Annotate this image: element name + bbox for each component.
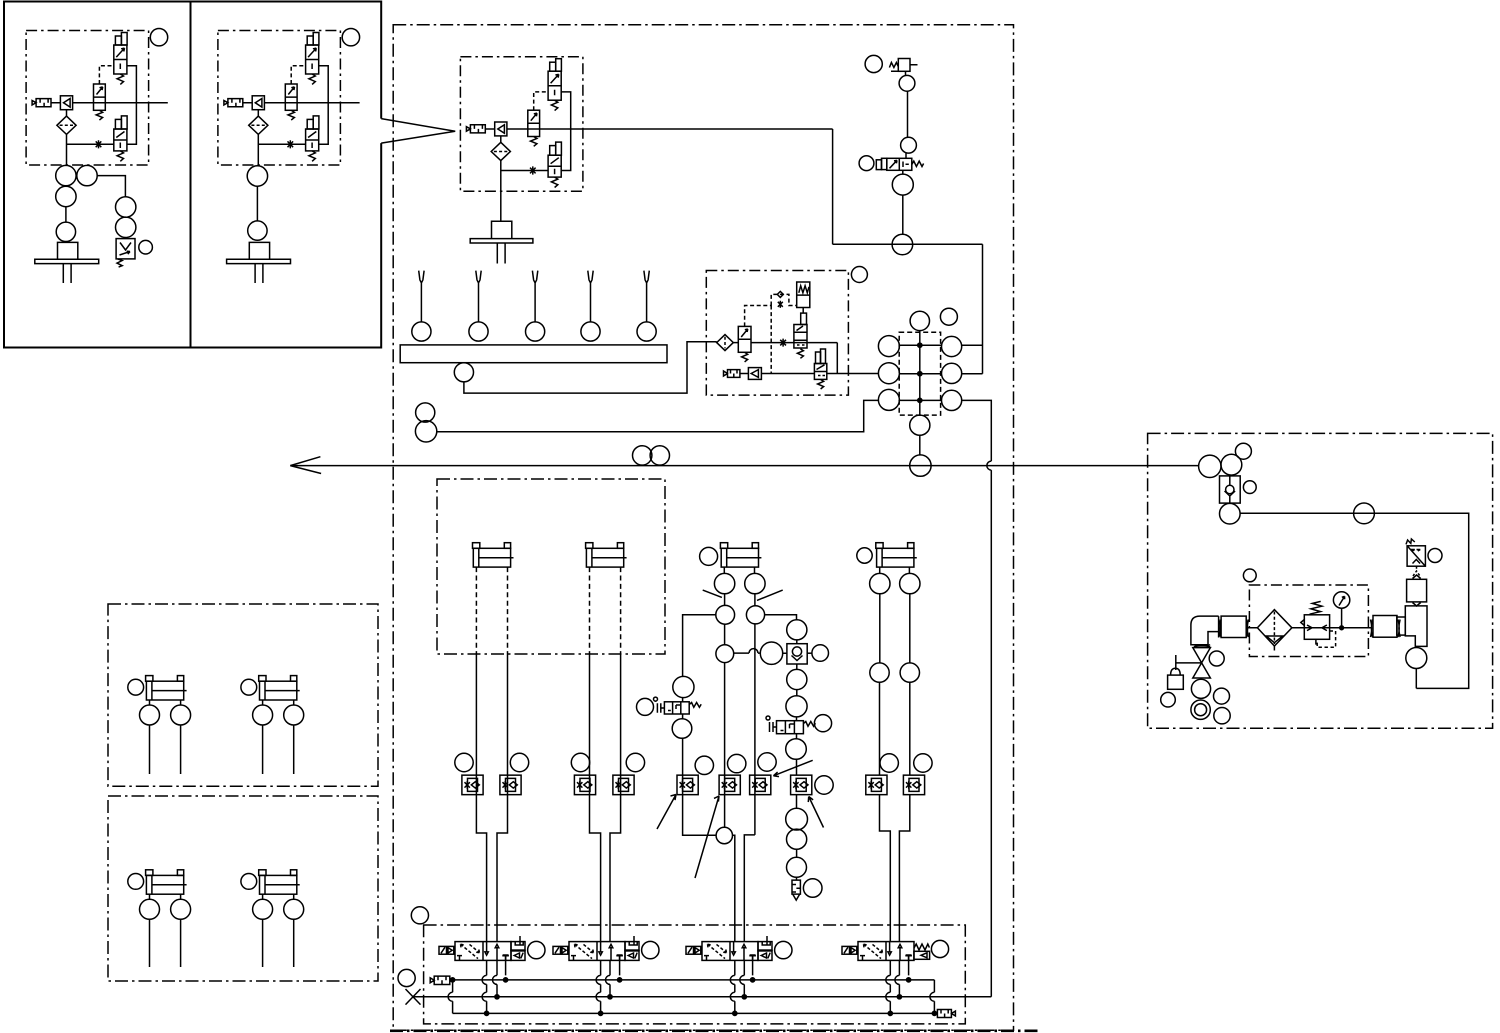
node DV1-P bbox=[495, 995, 499, 999]
wire row2 right bbox=[962, 373, 983, 375]
node row1 bbox=[918, 343, 922, 347]
manifold row 1 bbox=[899, 344, 941, 346]
wire DV4-P bbox=[898, 960, 900, 997]
pilot restrictor mark bbox=[778, 301, 783, 308]
tee block T1 bbox=[1405, 606, 1427, 647]
flow control FC5 bbox=[677, 775, 698, 795]
wires L2a bbox=[150, 894, 181, 967]
cylinder CA bbox=[473, 543, 514, 567]
supply source mark X bbox=[406, 989, 421, 1005]
node DV3-R bbox=[751, 978, 755, 982]
hop DV3-E1 bbox=[730, 975, 734, 984]
label circle L1a bbox=[128, 679, 144, 695]
node DV1-R bbox=[504, 978, 508, 982]
SH handle bbox=[1176, 655, 1202, 670]
nozzle circle N3 bbox=[526, 322, 545, 341]
label circle L1b bbox=[241, 679, 257, 695]
dryer D1 bbox=[1407, 579, 1427, 602]
port circle Q5 bbox=[786, 739, 807, 760]
port circle AS4 bbox=[1220, 503, 1241, 524]
wire main to exhaust row bbox=[836, 343, 838, 374]
label circle C3 bbox=[700, 547, 718, 565]
wire manifold down bbox=[919, 435, 921, 455]
joint mark F-CB2 bbox=[1371, 620, 1373, 638]
bottom frame line bbox=[390, 1030, 1040, 1033]
wire bus1 to bus3 left bbox=[452, 980, 454, 1014]
port circle M1L bbox=[878, 336, 899, 357]
wires L1a bbox=[150, 700, 181, 774]
wire DV1-R bbox=[503, 955, 509, 975]
wire C4 ports bbox=[880, 567, 910, 573]
hop DV1-P bbox=[493, 975, 498, 984]
valve manifold boundary bbox=[424, 925, 966, 1024]
wire DV1-E bbox=[486, 960, 488, 1013]
label circle AS3 bbox=[1235, 443, 1251, 459]
wire CA-A bbox=[476, 654, 486, 942]
release valve spring U4b bbox=[818, 379, 824, 389]
label circle regulator R1 bbox=[865, 55, 882, 72]
label circle DV3 bbox=[775, 941, 792, 958]
wire QE down bbox=[796, 664, 798, 696]
manifold block bbox=[899, 332, 940, 415]
connector block CB2 bbox=[1373, 616, 1397, 638]
spring DV4 bbox=[914, 944, 929, 950]
port circle L1b-B bbox=[284, 705, 304, 725]
node bus1 left bbox=[451, 978, 455, 982]
elbow fitting EF bbox=[1191, 616, 1219, 645]
wire DV2-E bbox=[600, 960, 602, 1013]
label circle FC10 bbox=[914, 754, 932, 772]
SV1 spring bbox=[912, 161, 924, 166]
label circle X bbox=[398, 969, 415, 986]
hop DV1-E2 bbox=[482, 992, 486, 1001]
wire CA-A dashed bbox=[475, 567, 477, 654]
port circle HV1b bbox=[672, 719, 692, 739]
node DV2-E bbox=[599, 1011, 603, 1015]
port circle V1c bbox=[56, 186, 76, 206]
wire to pad fitting 1 bbox=[65, 165, 68, 222]
port circle V2d bbox=[248, 221, 267, 240]
label circle FC6 bbox=[728, 754, 746, 772]
label circle FC1 bbox=[455, 753, 473, 771]
wire to pad fitting 2 bbox=[256, 165, 259, 221]
port circle P2 bbox=[901, 137, 917, 153]
joint mark CB2-T bbox=[1398, 620, 1400, 638]
label circle unit 2 bbox=[342, 29, 359, 46]
hop bus1L bbox=[448, 992, 453, 1001]
port circle P1 bbox=[899, 75, 915, 91]
vacuum switch valve U4v bbox=[801, 313, 807, 324]
wire CB-B dashed bbox=[620, 567, 622, 654]
wire CB-A dashed bbox=[589, 567, 591, 654]
label circle DV2 bbox=[642, 941, 659, 958]
port circle L2b-A bbox=[253, 899, 273, 919]
wires L2b bbox=[263, 894, 294, 967]
label circle M0b bbox=[940, 308, 957, 325]
node DV2-P bbox=[608, 995, 612, 999]
vacuum pad 1 bbox=[35, 242, 99, 283]
port circle C3B2 bbox=[746, 606, 764, 624]
header arrow bbox=[290, 457, 321, 474]
wire R1 down bbox=[905, 71, 907, 75]
wire CB-A bbox=[590, 654, 601, 942]
RG1 spring bbox=[1310, 601, 1322, 614]
port circle C4B2 bbox=[900, 663, 919, 682]
solenoid valve DV1 bbox=[439, 942, 511, 961]
pilot line dashed U4 bbox=[745, 294, 797, 373]
solenoid valve DV4 bbox=[842, 942, 914, 961]
cylinder C3 bbox=[720, 543, 761, 567]
option station boundary L1 bbox=[108, 604, 378, 786]
port circle Q7 bbox=[787, 829, 807, 849]
output stub unit2 bbox=[340, 102, 359, 104]
port circle L1b-A bbox=[253, 705, 273, 725]
silencer bus3 bbox=[937, 1010, 955, 1018]
switch mark C3R bbox=[757, 590, 783, 600]
left station box 1 bbox=[4, 2, 191, 348]
port circle C4A bbox=[870, 573, 890, 593]
shutoff solenoid valve SV1 bbox=[876, 160, 881, 170]
label circle RV bbox=[1428, 549, 1442, 563]
vacuum pad 3 bbox=[470, 221, 533, 263]
port circle AS5 bbox=[1354, 503, 1375, 524]
label circle HV2 bbox=[814, 715, 831, 732]
restrictor mark U4 bbox=[780, 339, 786, 347]
supply branch line bbox=[1240, 513, 1469, 688]
port circle P3 bbox=[892, 174, 913, 195]
pointer arrow A1 bbox=[657, 795, 676, 830]
wire down to PV line bbox=[832, 129, 834, 244]
regulator RG1 bbox=[1304, 615, 1329, 640]
wire Q7-Q8 bbox=[796, 849, 798, 880]
port circle L2a-B bbox=[171, 899, 191, 919]
port circle M5 bbox=[910, 455, 931, 476]
wire C4B mid bbox=[909, 594, 911, 663]
check valve CV1 bbox=[1220, 476, 1241, 503]
silencer U4m bbox=[724, 370, 740, 378]
hop bus1R bbox=[930, 992, 935, 1001]
wires L1b bbox=[263, 700, 294, 774]
wire DV3-R bbox=[750, 955, 756, 975]
label circle W1 bbox=[416, 403, 435, 422]
wire C3B down bbox=[744, 624, 755, 941]
pointer arrow A4 bbox=[808, 797, 823, 828]
wire DV4-E bbox=[889, 960, 891, 1013]
port circle C4B bbox=[900, 573, 920, 593]
cylinder CB bbox=[586, 543, 627, 567]
label circle C4 bbox=[857, 548, 872, 563]
port circle HV1a bbox=[673, 676, 694, 697]
left station box 2 bbox=[191, 2, 382, 348]
port circle M2L bbox=[878, 363, 899, 384]
wire C4A mid bbox=[879, 594, 881, 663]
pilot stack DV3 bbox=[758, 936, 772, 960]
node DV3-P bbox=[742, 995, 746, 999]
vacuum pad 2 bbox=[227, 242, 291, 283]
shutoff valve SH bbox=[1193, 648, 1211, 678]
port circle L1a-B bbox=[171, 705, 191, 725]
wire C3A link bbox=[724, 594, 726, 645]
supply bus2 bbox=[413, 996, 991, 998]
pressure regulator U4r bbox=[797, 282, 810, 308]
RV spring bbox=[1406, 539, 1415, 544]
label circle SH3 bbox=[1214, 688, 1230, 704]
wire DV2-R bbox=[617, 955, 623, 975]
supply valve U4 bbox=[738, 326, 751, 352]
port circle SH2 inner bbox=[1195, 704, 1207, 716]
flow control FC7 bbox=[750, 775, 771, 795]
nozzle circle N1 bbox=[412, 322, 431, 341]
wire C3 ports bbox=[724, 567, 754, 573]
port circle M4 bbox=[910, 415, 930, 435]
callout pointer to ejector detail bbox=[381, 119, 455, 144]
HV1 spring bbox=[689, 703, 701, 708]
junction circle J3 bbox=[716, 645, 734, 663]
flow control FC3 bbox=[574, 775, 595, 795]
port circle Q2 bbox=[787, 620, 807, 640]
RG1 feedback dashed bbox=[1317, 631, 1335, 647]
port circle V2a bbox=[247, 166, 267, 186]
solenoid valve DV2 bbox=[553, 942, 625, 961]
suction filter F4 bbox=[717, 335, 734, 351]
blowoff nozzle N3 bbox=[532, 271, 537, 322]
release valve U4b bbox=[816, 352, 821, 364]
wire J3 to QEV bbox=[734, 652, 761, 654]
wire J4 to valve3 bbox=[733, 835, 735, 941]
wire J3 down bbox=[724, 663, 726, 828]
label circle FRL bbox=[1243, 569, 1256, 582]
pressure gauge G1 bbox=[1333, 592, 1349, 608]
silencer QM bbox=[792, 880, 800, 900]
node DV3-E bbox=[733, 1011, 737, 1015]
wire row1 right bbox=[962, 344, 983, 346]
hop arc row3 wire bbox=[987, 461, 991, 470]
cylinder option boundary bbox=[437, 479, 665, 654]
padlock bbox=[1168, 675, 1184, 689]
node DV1-E bbox=[485, 1011, 489, 1015]
port circle M3R bbox=[942, 390, 962, 410]
port circle W2 bbox=[415, 421, 436, 442]
manifold row 2 bbox=[899, 373, 941, 375]
port circle C4A2 bbox=[870, 663, 889, 682]
cylinder L2b bbox=[259, 870, 300, 894]
label circle FC8 bbox=[815, 776, 833, 794]
hop DV3-E2 bbox=[730, 992, 734, 1001]
wire F4 to valve bbox=[733, 342, 738, 344]
vacuum line to manifold bbox=[827, 373, 879, 375]
ejector unit 4 boundary bbox=[706, 271, 848, 396]
nozzle circle N5 bbox=[637, 322, 656, 341]
flow control FC10 bbox=[903, 775, 924, 795]
pilot stack DV2 bbox=[625, 936, 639, 960]
port circle M2R bbox=[942, 363, 962, 383]
label circle FC7 bbox=[758, 753, 776, 771]
node row2 bbox=[918, 372, 922, 376]
ejector unit 1 bbox=[26, 31, 149, 166]
main supply header bbox=[290, 465, 1198, 467]
connector block CB1 bbox=[1221, 616, 1246, 637]
exhaust line ejector4 bbox=[761, 373, 814, 375]
port circle C3A bbox=[714, 573, 734, 593]
wire CA-B dashed bbox=[507, 567, 509, 654]
hop DV3-P bbox=[740, 975, 745, 984]
wire DV2-P bbox=[609, 960, 611, 997]
wire HV2 down bbox=[796, 734, 798, 809]
blowoff nozzle N4 bbox=[588, 271, 593, 322]
port circle Q1 bbox=[760, 642, 782, 664]
wire C4B down bbox=[899, 682, 909, 941]
port circle P4 bbox=[892, 234, 913, 255]
label circle CV1 bbox=[1243, 481, 1256, 494]
wire P2-valve bbox=[905, 153, 907, 158]
flow control FC8 bbox=[791, 775, 812, 795]
supply valve spring U4 bbox=[742, 352, 748, 362]
main system boundary bbox=[393, 25, 1013, 1030]
port circle L2a-A bbox=[140, 899, 160, 919]
manifold gallery bbox=[919, 330, 921, 415]
port circle AS1 bbox=[1199, 455, 1221, 477]
option station boundary L2 bbox=[108, 796, 378, 981]
hop DV4-E1 bbox=[886, 975, 891, 984]
pressure switch spring bbox=[117, 259, 122, 267]
node bus3 right bbox=[932, 1011, 936, 1015]
filter FL1 bbox=[1257, 610, 1292, 646]
PV supply line bbox=[833, 243, 983, 245]
port circle Q3 bbox=[787, 669, 807, 689]
hop DV2-P bbox=[606, 975, 611, 984]
port circle H1 bbox=[633, 446, 652, 465]
wire C3B2 to QEV top bbox=[765, 615, 797, 620]
flow control FC1 bbox=[462, 775, 483, 795]
wire T2 down bbox=[1415, 646, 1417, 688]
nozzle circle N2 bbox=[469, 322, 488, 341]
port circle M3L bbox=[878, 389, 899, 410]
port circle bar bbox=[454, 363, 473, 382]
port circle C3B bbox=[745, 573, 765, 593]
port circle Q4 bbox=[786, 696, 807, 717]
wire SV1 to P3 bbox=[902, 170, 904, 234]
label circle SH bbox=[1209, 651, 1224, 666]
wire DV4-R bbox=[906, 955, 912, 975]
pilot stack DV1 bbox=[511, 936, 525, 960]
port circle L2b-B bbox=[284, 899, 304, 919]
port circle L1a-A bbox=[140, 705, 160, 725]
port circle S1b bbox=[116, 217, 136, 237]
label circle FC3 bbox=[571, 753, 589, 771]
label circle L2b bbox=[241, 874, 257, 890]
junction circle J4 bbox=[716, 827, 732, 843]
wire regulator to valve bbox=[802, 308, 804, 314]
wire down to manifold bbox=[982, 244, 984, 373]
joint mark EF-C bbox=[1219, 620, 1221, 638]
silencer bus1 bbox=[430, 976, 450, 984]
wire row3 right bbox=[962, 400, 992, 996]
label circle SH4 bbox=[1214, 708, 1230, 724]
port circle S1a bbox=[116, 197, 136, 217]
cylinder C4 bbox=[876, 543, 917, 567]
label circle FC5 bbox=[695, 756, 713, 774]
switch mark C3L bbox=[703, 590, 722, 597]
air supply unit boundary bbox=[1148, 433, 1493, 728]
label circle FC4 bbox=[626, 753, 644, 771]
label circle unit 1 bbox=[150, 29, 167, 46]
node DV4-R bbox=[907, 978, 911, 982]
hop arc QEV line bbox=[749, 649, 758, 654]
label circle HV1 bbox=[637, 698, 654, 715]
blowoff nozzle N5 bbox=[644, 271, 649, 322]
ejector unit 3 bbox=[460, 57, 583, 192]
blowoff manifold bar bbox=[400, 345, 667, 363]
wire DV3-E bbox=[734, 960, 736, 1013]
port circle V1a bbox=[56, 165, 76, 185]
hop DV2-E1 bbox=[596, 975, 601, 984]
port circle Q8 bbox=[787, 857, 807, 877]
label circle FC9 bbox=[880, 754, 898, 772]
hop DV4-E2 bbox=[886, 992, 891, 1001]
flow control FC4 bbox=[613, 775, 634, 795]
hop DV1-E1 bbox=[482, 975, 486, 984]
wire row3 left bbox=[437, 400, 879, 431]
wire to pad fitting 3 bbox=[500, 191, 502, 221]
pointer arrow A2 bbox=[695, 796, 719, 878]
flow control FC2 bbox=[500, 775, 521, 795]
label circle QM bbox=[803, 879, 822, 898]
wire HV1 down bbox=[683, 698, 716, 836]
FRL boundary bbox=[1249, 585, 1368, 657]
wire Q4 to HV2 bbox=[796, 717, 798, 721]
hand valve HV2 bbox=[777, 721, 804, 734]
check valve U4c bbox=[748, 368, 761, 380]
label circle PS1 bbox=[139, 240, 153, 254]
pilot box DV4 bbox=[914, 951, 930, 959]
port circle M0 bbox=[910, 311, 929, 330]
wire HV1 branch bbox=[683, 615, 716, 677]
joint mark CB1-F bbox=[1246, 620, 1248, 638]
wire C3B link bbox=[754, 594, 756, 606]
pointer arrow A3 bbox=[773, 760, 812, 776]
RV drain mark bbox=[1413, 566, 1420, 576]
label circle DV1 bbox=[528, 941, 545, 958]
quick exhaust valve QE bbox=[787, 644, 807, 664]
port circle T2 bbox=[1406, 648, 1427, 669]
relief regulator R1 bbox=[889, 63, 898, 68]
hop DV4-P bbox=[895, 975, 900, 984]
wire CA-B bbox=[497, 654, 508, 942]
port circle M1R bbox=[942, 336, 962, 356]
port circle V1d bbox=[56, 222, 75, 241]
exhaust bus3 bbox=[453, 1012, 938, 1014]
node DV2-R bbox=[618, 978, 622, 982]
label circle QEr bbox=[812, 645, 829, 662]
wire CB-B bbox=[610, 654, 621, 942]
pilot check mark bbox=[777, 291, 783, 297]
relief valve RV bbox=[1407, 546, 1425, 566]
wire DV1-P bbox=[496, 960, 498, 997]
ejector unit 2 bbox=[218, 31, 341, 166]
port circle V1b bbox=[77, 165, 97, 185]
wire ejector3 output bbox=[583, 128, 833, 130]
hop DV2-E2 bbox=[596, 992, 601, 1001]
wire DV3-P bbox=[743, 960, 745, 997]
label circle DV4 bbox=[931, 940, 948, 957]
label circle L2a bbox=[128, 874, 144, 890]
arm block T1a bbox=[1397, 617, 1406, 635]
solenoid valve DV3 bbox=[686, 942, 758, 961]
port circle AS2 bbox=[1221, 454, 1242, 475]
cylinder L2a bbox=[146, 870, 187, 894]
pressure switch PS1 bbox=[116, 239, 135, 259]
port circle C3A2 bbox=[716, 605, 735, 624]
